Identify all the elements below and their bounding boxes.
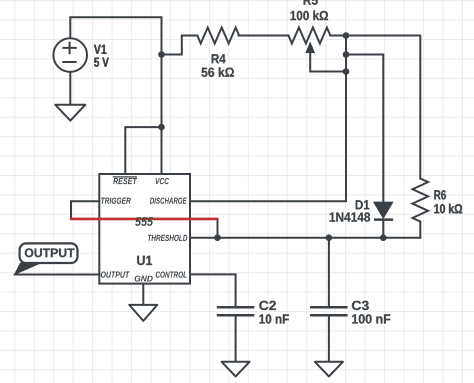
node junction D1 branch <box>343 51 350 58</box>
label D1 value <box>330 200 371 222</box>
node junction VCC/RESET branch <box>158 124 165 131</box>
label V1 value <box>94 45 109 67</box>
wire vcc rail down to discharge pin <box>190 36 346 202</box>
wire V1 bottom lead <box>69 72 71 105</box>
ground (555 GND pin) <box>129 305 157 321</box>
node OUTPUT flag <box>15 243 78 274</box>
wire C3 tap down <box>328 238 330 308</box>
wire trigger <box>71 201 99 219</box>
pin VCC <box>156 178 170 184</box>
wire V1 top to VCC rail <box>70 17 161 174</box>
label C2 value <box>259 301 289 324</box>
label C3 value <box>352 301 390 324</box>
wire C2 bottom lead <box>235 315 237 362</box>
wire branch to R4 <box>162 36 198 55</box>
pin RESET with overline <box>113 177 137 184</box>
wire red link down to threshold <box>217 219 219 238</box>
resistor R5 (potentiometer) <box>289 28 331 44</box>
label R4 value <box>202 54 235 77</box>
ground (C2) <box>222 362 250 377</box>
pin DISCHARGE <box>150 198 187 204</box>
node junction C3 tap <box>326 234 333 241</box>
node junction trigger-threshold <box>214 234 221 241</box>
resistor R4 <box>197 28 239 44</box>
node junction D1 cathode <box>380 234 387 241</box>
potentiometer R5 wiper arrow <box>306 43 314 53</box>
wire control to C2 <box>190 274 236 307</box>
capacitor C3 <box>310 307 348 315</box>
label 555 <box>135 217 153 226</box>
label R5 value <box>291 0 329 20</box>
label R6 value <box>434 190 462 213</box>
pin OUTPUT <box>101 272 130 278</box>
resistor R6 <box>412 179 428 222</box>
pin THRESHOLD <box>148 235 187 241</box>
diode D1 <box>374 202 393 219</box>
wire reset branch <box>125 127 161 174</box>
pin GND <box>135 276 153 282</box>
label U1 <box>137 256 152 265</box>
node junction R5 right top <box>343 32 350 39</box>
op-amp U1 555 timer body <box>99 174 190 284</box>
node junction wiper <box>343 68 350 75</box>
wire C3 bottom lead <box>328 315 330 362</box>
pin CONTROL <box>156 272 187 278</box>
wire R4 to R5 <box>239 35 289 37</box>
pin TRIGGER <box>101 198 131 204</box>
wire branch to D1 <box>346 55 383 203</box>
wire R5 right to top-right corner <box>331 36 421 179</box>
node junction VCC/R4 branch <box>158 51 165 58</box>
ground (V1) <box>55 105 85 121</box>
wire gnd pin stem <box>142 284 144 305</box>
wire trigger-threshold red highlighted <box>70 218 218 221</box>
wire R6 bottom to threshold bus <box>419 222 421 238</box>
wire threshold bus <box>190 237 420 239</box>
wire D1 cathode to bus <box>382 220 384 238</box>
wire output <box>15 274 100 276</box>
ground (C3) <box>315 362 343 377</box>
capacitor C2 <box>217 307 255 315</box>
wire R5 wiper stem <box>310 49 346 72</box>
voltage source V1 <box>53 38 87 72</box>
